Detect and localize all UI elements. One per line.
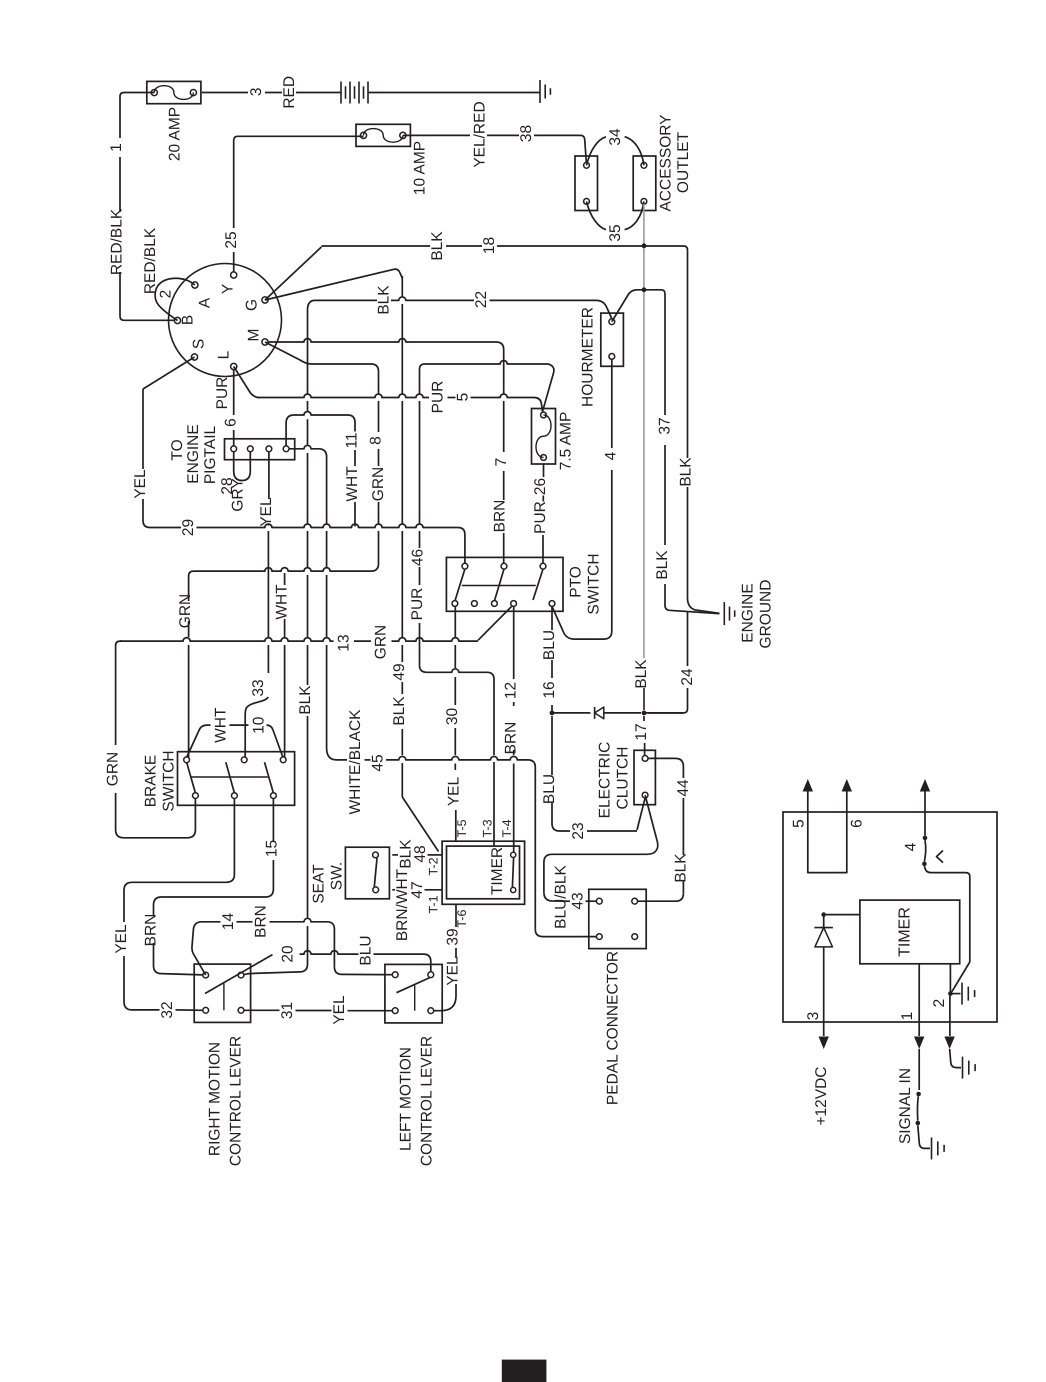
svg-text:T-2: T-2: [426, 857, 440, 875]
svg-text:5: 5: [791, 819, 808, 828]
svg-text:BRN: BRN: [492, 500, 509, 533]
svg-text:T-1: T-1: [426, 895, 440, 913]
svg-text:PUR: PUR: [214, 377, 231, 410]
svg-text:BLK: BLK: [376, 285, 393, 315]
svg-text:BLK: BLK: [673, 853, 690, 883]
svg-text:BLU: BLU: [541, 630, 558, 660]
svg-text:LEFT MOTION: LEFT MOTION: [398, 1047, 415, 1151]
svg-text:BLU/BLK: BLU/BLK: [553, 864, 570, 928]
svg-text:BRN: BRN: [253, 905, 270, 938]
svg-text:13: 13: [336, 634, 353, 651]
svg-text:10 AMP: 10 AMP: [412, 141, 429, 195]
svg-text:43: 43: [570, 892, 587, 909]
svg-text:5: 5: [455, 393, 472, 402]
svg-text:PUR: PUR: [409, 588, 426, 621]
svg-text:T-6: T-6: [455, 910, 469, 928]
svg-text:A: A: [197, 297, 214, 308]
svg-text:31: 31: [279, 1002, 296, 1019]
svg-text:18: 18: [481, 237, 498, 254]
svg-text:24: 24: [679, 668, 696, 686]
svg-text:YEL/RED: YEL/RED: [472, 101, 489, 167]
svg-text:TIMER: TIMER: [897, 907, 914, 957]
svg-text:G: G: [244, 299, 261, 311]
svg-text:Y: Y: [220, 284, 237, 294]
svg-text:YEL: YEL: [445, 956, 462, 986]
svg-text:HOURMETER: HOURMETER: [580, 307, 597, 407]
svg-text:BRN: BRN: [143, 914, 160, 947]
svg-text:33: 33: [250, 679, 267, 696]
svg-text:1: 1: [899, 1012, 916, 1021]
svg-text:35: 35: [607, 224, 624, 241]
svg-text:WHT: WHT: [274, 584, 291, 620]
svg-text:GROUND: GROUND: [758, 580, 775, 649]
svg-text:BRN/WHT: BRN/WHT: [394, 868, 411, 941]
svg-text:SWITCH: SWITCH: [161, 750, 178, 811]
svg-text:7: 7: [493, 458, 510, 467]
svg-text:38: 38: [518, 125, 535, 142]
svg-text:7.5 AMP: 7.5 AMP: [558, 412, 575, 471]
svg-text:PIGTAIL: PIGTAIL: [202, 425, 219, 484]
svg-text:3: 3: [805, 1012, 822, 1021]
svg-text:30: 30: [444, 708, 461, 726]
svg-text:20 AMP: 20 AMP: [167, 107, 184, 161]
svg-text:PUR: PUR: [532, 501, 549, 534]
svg-text:T-4: T-4: [500, 819, 514, 837]
svg-text:SIGNAL IN: SIGNAL IN: [897, 1068, 914, 1144]
svg-text:BLK: BLK: [391, 696, 408, 726]
svg-text:34: 34: [607, 128, 624, 146]
svg-text:T-5: T-5: [455, 819, 469, 837]
svg-text:ENGINE: ENGINE: [740, 583, 757, 642]
svg-text:BLU: BLU: [541, 774, 558, 804]
svg-text:SEAT: SEAT: [311, 864, 328, 904]
svg-text:GRN: GRN: [105, 752, 122, 786]
svg-text:BLK: BLK: [678, 457, 695, 487]
svg-text:WHITE/BLACK: WHITE/BLACK: [347, 709, 364, 815]
svg-text:20: 20: [280, 945, 297, 963]
svg-text:L: L: [216, 350, 233, 359]
svg-text:PTO: PTO: [568, 566, 585, 598]
svg-text:+12VDC: +12VDC: [813, 1066, 830, 1125]
svg-text:BLK: BLK: [297, 685, 314, 715]
svg-text:ENGINE: ENGINE: [185, 424, 202, 483]
svg-text:YEL: YEL: [132, 469, 149, 499]
svg-text:23: 23: [570, 822, 587, 839]
svg-text:37: 37: [657, 417, 674, 434]
svg-text:CONTROL LEVER: CONTROL LEVER: [228, 1036, 245, 1166]
svg-text:BLK: BLK: [654, 550, 671, 580]
svg-text:8: 8: [368, 436, 385, 445]
svg-text:11: 11: [344, 432, 361, 448]
svg-text:GRN: GRN: [370, 467, 387, 501]
svg-text:44: 44: [675, 779, 692, 797]
svg-text:49: 49: [391, 663, 408, 680]
svg-text:PUR: PUR: [430, 381, 447, 414]
svg-text:29: 29: [180, 519, 197, 536]
svg-text:BLK: BLK: [633, 659, 650, 689]
svg-text:YEL: YEL: [113, 924, 130, 954]
svg-text:16: 16: [541, 681, 558, 698]
svg-text:15: 15: [264, 840, 281, 857]
svg-text:YEL: YEL: [331, 995, 348, 1025]
svg-text:ACCESSORY: ACCESSORY: [658, 114, 675, 211]
svg-text:3: 3: [248, 87, 265, 96]
svg-text:2: 2: [158, 290, 175, 299]
svg-text:RED: RED: [281, 76, 298, 109]
svg-text:26: 26: [532, 478, 549, 495]
svg-text:CONTROL LEVER: CONTROL LEVER: [419, 1036, 436, 1166]
svg-text:6: 6: [223, 418, 240, 427]
svg-text:46: 46: [410, 549, 427, 566]
svg-text:TIMER: TIMER: [489, 847, 506, 895]
svg-text:BLK: BLK: [429, 231, 446, 261]
svg-text:32: 32: [159, 1001, 176, 1018]
svg-text:SWITCH: SWITCH: [586, 553, 603, 614]
svg-text:RIGHT MOTION: RIGHT MOTION: [207, 1042, 224, 1156]
svg-text:4: 4: [603, 451, 620, 460]
svg-text:17: 17: [633, 723, 650, 740]
svg-text:OUTLET: OUTLET: [675, 131, 692, 193]
svg-text:BRN: BRN: [503, 722, 520, 755]
svg-text:S: S: [191, 339, 208, 349]
svg-text:1: 1: [108, 143, 125, 152]
svg-text:GRN: GRN: [373, 625, 390, 659]
svg-text:45: 45: [370, 754, 387, 771]
svg-text:T-3: T-3: [481, 819, 495, 837]
svg-text:22: 22: [473, 291, 490, 308]
svg-text:B: B: [180, 315, 197, 325]
svg-text:4: 4: [903, 842, 920, 851]
svg-text:6: 6: [849, 819, 866, 828]
svg-text:ELECTRIC: ELECTRIC: [597, 742, 614, 819]
svg-text:SW.: SW.: [329, 862, 346, 890]
svg-text:YEL: YEL: [446, 776, 463, 806]
svg-text:RED/BLK: RED/BLK: [109, 208, 126, 275]
svg-text:YEL: YEL: [258, 497, 275, 527]
svg-text:25: 25: [223, 231, 240, 248]
svg-text:12: 12: [503, 682, 520, 699]
svg-text:47: 47: [409, 881, 426, 898]
svg-text:GRY: GRY: [230, 478, 247, 511]
svg-text:GRN: GRN: [177, 594, 194, 628]
svg-text:CLUTCH: CLUTCH: [615, 747, 632, 810]
svg-text:14: 14: [220, 913, 237, 931]
svg-text:BRAKE: BRAKE: [143, 755, 160, 808]
svg-text:BLU: BLU: [358, 935, 375, 965]
svg-text:2: 2: [931, 999, 948, 1008]
svg-text:WHT: WHT: [213, 707, 230, 743]
svg-text:M: M: [246, 329, 263, 342]
svg-text:10: 10: [251, 716, 268, 734]
svg-text:TO: TO: [169, 439, 186, 460]
svg-text:PEDAL CONNECTOR: PEDAL CONNECTOR: [605, 951, 622, 1105]
svg-text:WHT: WHT: [344, 466, 361, 502]
svg-text:39: 39: [445, 928, 462, 945]
svg-text:RED/BLK: RED/BLK: [142, 227, 159, 294]
